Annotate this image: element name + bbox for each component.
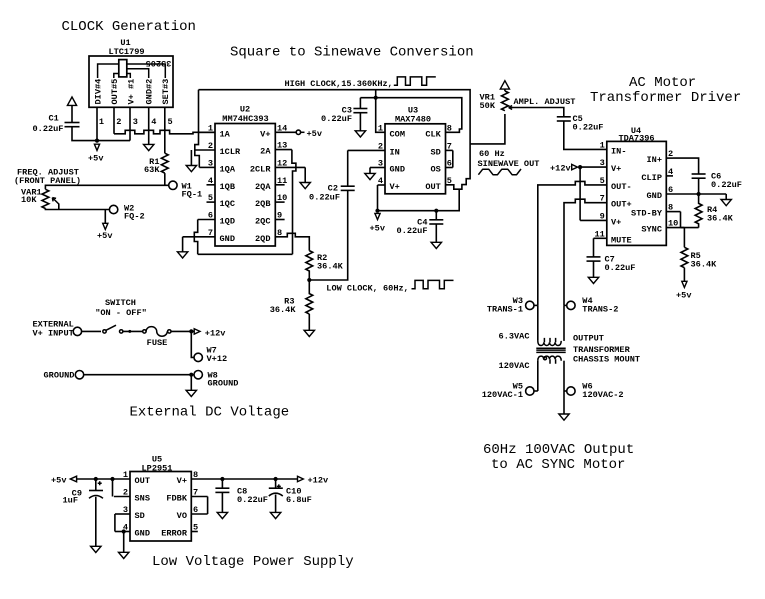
svg-text:11: 11 <box>277 176 287 186</box>
switch SW1 <box>103 330 106 333</box>
wire +5v rail to C4 and OUT riser <box>378 189 460 211</box>
wire VAR1 wiper down <box>58 204 60 210</box>
ground arrow below U1 pin4 <box>144 144 154 150</box>
sine wave glyph <box>478 169 521 175</box>
U3 pin 4 V+ <box>378 184 386 186</box>
U2 pin 10 stub 2QB <box>275 201 284 203</box>
svg-text:13: 13 <box>277 141 287 151</box>
U2 pin 14 stub V+ <box>275 131 296 133</box>
svg-text:36.4K: 36.4K <box>270 305 297 315</box>
supply up-arrow above C1 <box>67 97 76 105</box>
svg-text:5: 5 <box>447 176 452 186</box>
svg-text:60Hz 100VAC Output: 60Hz 100VAC Output <box>483 442 634 458</box>
wire C3 node to CLK vertical <box>360 98 461 133</box>
svg-text:1uF: 1uF <box>63 496 78 506</box>
svg-text:7: 7 <box>447 141 452 151</box>
svg-text:0.22uF: 0.22uF <box>711 180 742 190</box>
node junction dot W8 <box>189 373 193 377</box>
svg-text:CLIP: CLIP <box>641 173 662 183</box>
wire U1 pin2 down to bus <box>113 107 115 134</box>
svg-text:V+: V+ <box>611 217 621 227</box>
svg-text:OS: OS <box>430 165 440 175</box>
wire U1 pin3 down to +5v rail <box>129 107 131 140</box>
svg-text:8: 8 <box>447 123 452 133</box>
U1 internal wire GND to package <box>127 69 149 78</box>
potentiometer VAR1 10K <box>42 189 49 208</box>
+5v supply symbol below U3 <box>375 213 380 219</box>
svg-text:9: 9 <box>600 211 605 221</box>
svg-text:0.22uF: 0.22uF <box>309 193 340 203</box>
svg-text:GND: GND <box>647 191 662 201</box>
wire U5 OUT row <box>77 478 130 480</box>
U2 pin 12 stub 2CLR <box>275 166 305 168</box>
U2 pin 13 stub 2A <box>275 149 292 151</box>
svg-text:63K: 63K <box>144 165 160 175</box>
svg-text:36.4K: 36.4K <box>317 262 344 272</box>
terminal W7 V+12 <box>194 353 202 361</box>
node junction dot GND/C6/R4 <box>697 192 701 196</box>
wire U2 bottom bus <box>198 253 293 255</box>
capacitor C2 0.22uF <box>341 185 355 187</box>
svg-text:0.22uF: 0.22uF <box>397 226 428 236</box>
wire C10 to ground <box>275 495 277 513</box>
svg-text:6: 6 <box>208 211 213 221</box>
+12v supply into U4 <box>578 165 582 169</box>
U5 pin 2 SNS <box>114 496 130 498</box>
svg-text:V+12: V+12 <box>207 354 228 364</box>
wire VR1 wiper to C5 <box>514 108 564 117</box>
svg-text:SET#3: SET#3 <box>161 79 171 105</box>
svg-text:GND: GND <box>135 529 150 539</box>
svg-text:OUT: OUT <box>135 476 150 486</box>
svg-text:Transformer Driver: Transformer Driver <box>590 90 741 106</box>
svg-text:OUT-: OUT- <box>611 182 632 192</box>
wire U2 pin8 right to R2 with hop <box>275 233 309 250</box>
wire U3 V+ down to +5v rail <box>377 185 379 211</box>
U4 pin 10 SYNC <box>666 227 684 229</box>
svg-text:External DC Voltage: External DC Voltage <box>130 405 290 421</box>
svg-text:C1: C1 <box>49 114 59 124</box>
svg-text:36.4K: 36.4K <box>691 260 718 270</box>
+5v supply symbol below U1 pin1 <box>94 144 99 150</box>
svg-text:9: 9 <box>277 211 282 221</box>
U5 pin 3 SD <box>115 513 130 515</box>
ground arrow below C10 <box>270 512 280 518</box>
terminal W3 TRANS-1 <box>526 301 534 309</box>
node junction dot C8 <box>220 477 224 481</box>
U4 pin 3 V+ <box>580 166 607 168</box>
U3 pin 6 OS <box>446 167 453 169</box>
svg-text:VO: VO <box>177 511 187 521</box>
wire IN+ right to C6 <box>673 158 699 174</box>
U1 internal wire V+ to package <box>127 74 131 79</box>
svg-text:+12v: +12v <box>205 328 226 338</box>
svg-text:AC Motor: AC Motor <box>629 75 696 91</box>
transformer T1 core <box>536 347 565 349</box>
terminal W6 120VAC-2 <box>567 387 575 395</box>
wire R1 to W1 <box>164 173 166 185</box>
fuse F1 <box>143 330 146 333</box>
svg-text:10: 10 <box>277 193 287 203</box>
wire stub bus to C3 node <box>375 90 377 98</box>
transformer T1 primary lead left <box>537 305 539 341</box>
svg-text:0.22uF: 0.22uF <box>237 495 268 505</box>
U4 pin 4 CLIP <box>666 175 673 177</box>
svg-text:HIGH CLOCK,15.360KHz,: HIGH CLOCK,15.360KHz, <box>285 79 393 89</box>
wire R5 to +5v <box>683 268 685 282</box>
+12v arrow right <box>298 476 304 481</box>
wire MUTE down to C7 <box>593 238 595 257</box>
resistor R3 36.4K <box>306 280 313 314</box>
wire VR1 bottom to OUT riser <box>470 114 505 144</box>
svg-text:50K: 50K <box>480 101 496 111</box>
wire U3 IN left and down to C2 <box>347 150 349 186</box>
ground arrow below C3 <box>355 131 365 137</box>
svg-text:IN-: IN- <box>611 146 626 156</box>
svg-text:CLK: CLK <box>425 129 441 139</box>
svg-text:+5v: +5v <box>307 129 322 139</box>
svg-text:GND: GND <box>220 234 235 244</box>
wire C4 to ground <box>435 224 437 242</box>
svg-text:7: 7 <box>193 488 198 498</box>
svg-text:DIV#4: DIV#4 <box>94 79 104 105</box>
wire ground drop at U2 pin2 <box>190 150 192 166</box>
svg-text:IN: IN <box>390 147 400 157</box>
svg-text:1: 1 <box>378 123 383 133</box>
transformer secondary lead right <box>563 361 565 414</box>
capacitor C6 0.22uF <box>692 173 706 175</box>
svg-text:CHASSIS MOUNT: CHASSIS MOUNT <box>573 355 640 365</box>
resistor R1 63K <box>161 153 168 173</box>
svg-text:33205: 33205 <box>146 58 172 68</box>
svg-text:V+: V+ <box>611 164 621 174</box>
svg-text:IN+: IN+ <box>647 155 662 165</box>
wire C3 to ground <box>359 113 361 131</box>
svg-text:5: 5 <box>193 523 198 533</box>
svg-text:3: 3 <box>208 158 213 168</box>
ground arrow below C7 <box>588 277 598 283</box>
svg-text:U2: U2 <box>240 105 250 115</box>
U5 pin 6 VO <box>191 513 207 515</box>
U4 pin 2 IN+ <box>666 157 673 159</box>
capacitor C9 1uF electrolytic <box>95 479 97 491</box>
node junction dot U1 pin1 / +5v <box>95 139 99 143</box>
svg-text:1QB: 1QB <box>220 182 235 192</box>
node junction dot C4 <box>434 209 438 213</box>
node junction dot C10 <box>274 477 278 481</box>
svg-text:2A: 2A <box>260 147 271 157</box>
wire C3 drop <box>359 98 361 109</box>
wire fuse to +12v arrow <box>171 330 195 332</box>
wire C6 down to GND node <box>698 178 700 194</box>
wire input to switch <box>82 330 101 332</box>
transformer phase dot <box>544 357 547 360</box>
terminal W4 TRANS-2 <box>567 301 575 309</box>
svg-text:1QC: 1QC <box>220 199 235 209</box>
svg-text:2: 2 <box>116 117 121 127</box>
ground arrow below transformer <box>559 414 569 420</box>
svg-text:3: 3 <box>123 505 128 515</box>
U4 pin 11 MUTE <box>594 237 607 239</box>
wire ground row <box>84 374 194 376</box>
VR1 wiper arrow <box>509 106 514 110</box>
svg-text:TRANS-1: TRANS-1 <box>487 305 523 315</box>
svg-text:GROUND: GROUND <box>44 370 75 380</box>
svg-text:V+ #1: V+ #1 <box>127 79 137 105</box>
U5 pin 7 FDBK <box>191 496 207 498</box>
U5 pin 4 GND <box>115 531 130 533</box>
svg-text:3: 3 <box>378 159 383 169</box>
wire U2 pin2/pin3 clear net <box>195 132 200 167</box>
svg-text:FQ-1: FQ-1 <box>182 189 203 199</box>
svg-text:2QC: 2QC <box>255 217 270 227</box>
svg-text:+12v: +12v <box>308 476 329 486</box>
svg-text:MM74HC393: MM74HC393 <box>222 114 268 124</box>
wire U5 V+ row <box>191 478 297 480</box>
wire C2 down to R2/R3 node <box>309 190 347 280</box>
wire VAR1 bottom to W2 <box>45 208 109 209</box>
wire U3 GND down <box>369 168 371 174</box>
svg-text:"ON - OFF": "ON - OFF" <box>95 308 147 318</box>
svg-text:3: 3 <box>133 117 138 127</box>
svg-text:OUT#5: OUT#5 <box>110 79 120 105</box>
svg-text:0.22uF: 0.22uF <box>33 124 64 134</box>
U2 pin 6 stub 1QD <box>198 219 215 221</box>
svg-text:SD: SD <box>135 511 145 521</box>
wire COM drop to U3 pin1 <box>376 98 385 133</box>
capacitor C8 0.22uF <box>221 479 223 488</box>
transformer T1 primary lead right <box>563 305 565 341</box>
svg-text:SINEWAVE OUT: SINEWAVE OUT <box>478 159 540 169</box>
U4 pin 9 V+ <box>580 219 607 221</box>
square wave glyph low clock <box>412 280 454 288</box>
ground arrow below W8 <box>186 390 196 396</box>
svg-text:5: 5 <box>168 117 173 127</box>
ground arrow below C8 <box>217 512 227 518</box>
svg-text:3: 3 <box>600 158 605 168</box>
U1 internal wire OUT to package <box>114 74 119 79</box>
terminal W2 FQ-2 <box>109 205 117 213</box>
VAR1 wiper arrow <box>52 198 59 204</box>
svg-text:TRANSFORMER: TRANSFORMER <box>573 345 631 355</box>
svg-text:STD-BY: STD-BY <box>631 209 663 219</box>
svg-text:(FRONT PANEL): (FRONT PANEL) <box>14 176 81 186</box>
potentiometer VR1 50K <box>502 91 509 111</box>
svg-text:+5v: +5v <box>88 153 103 163</box>
svg-text:1: 1 <box>208 123 213 133</box>
capacitor C4 0.22uF <box>435 211 437 220</box>
wire U5 GND drop <box>123 532 125 553</box>
svg-text:0.22uF: 0.22uF <box>573 123 604 133</box>
svg-text:7: 7 <box>208 228 213 238</box>
svg-text:2QA: 2QA <box>255 182 271 192</box>
svg-text:+5v: +5v <box>370 224 385 234</box>
wire R3 to ground <box>308 314 310 330</box>
terminal W1 FQ-1 <box>169 181 177 189</box>
svg-text:36.4K: 36.4K <box>707 214 734 224</box>
svg-text:2: 2 <box>378 141 383 151</box>
wire W7 drop <box>191 331 194 357</box>
U4 pin 6 GND <box>666 193 726 195</box>
U2 pin 1 stub 1A <box>199 131 216 133</box>
wire C7 to ground <box>593 261 595 277</box>
svg-text:120VAC: 120VAC <box>499 361 530 371</box>
terminal external V+ input <box>73 327 81 335</box>
wire SYNC node down to R5 <box>683 228 685 248</box>
svg-text:V+: V+ <box>260 129 270 139</box>
resistor R4 36.4K <box>695 194 702 228</box>
node junction dot C3/COM/CLK <box>374 96 378 100</box>
wire W8 ground drop <box>190 375 192 391</box>
svg-text:SYNC: SYNC <box>641 225 662 235</box>
supply up-arrow above VR1 <box>500 81 509 89</box>
ground arrow right of U4 <box>721 200 731 206</box>
transformer T1 secondary winding <box>538 356 561 361</box>
svg-text:SD: SD <box>430 147 440 157</box>
svg-text:6.3VAC: 6.3VAC <box>499 332 530 342</box>
svg-text:6.8uF: 6.8uF <box>286 495 312 505</box>
svg-text:120VAC-2: 120VAC-2 <box>582 390 623 400</box>
svg-text:1QD: 1QD <box>220 217 235 227</box>
U4 pin 8 STD-BY <box>666 211 680 213</box>
svg-text:0.22uF: 0.22uF <box>321 114 352 124</box>
svg-text:6: 6 <box>447 159 452 169</box>
svg-text:+5v: +5v <box>676 291 691 301</box>
svg-text:ERROR: ERROR <box>161 529 188 539</box>
ground arrow below U2 pin2 <box>186 166 196 172</box>
svg-text:CLOCK Generation: CLOCK Generation <box>62 19 196 35</box>
svg-text:1: 1 <box>600 140 605 150</box>
svg-text:4: 4 <box>668 167 673 177</box>
svg-text:4: 4 <box>208 176 213 186</box>
ground arrow below U2 pin7 <box>177 252 187 258</box>
terminal W8 GROUND <box>194 371 202 379</box>
svg-text:1QA: 1QA <box>220 164 236 174</box>
square wave glyph high clock <box>394 77 436 85</box>
ground arrow below R3 <box>304 330 314 336</box>
wire bus U1 pin2 to U2 pin1 with hops <box>114 130 215 134</box>
svg-text:SWITCH: SWITCH <box>105 298 136 308</box>
U3 pin 3 GND <box>370 167 385 169</box>
svg-text:1A: 1A <box>220 129 231 139</box>
U2 pin 3 stub 1QA <box>199 166 215 168</box>
U5 pin 5 ERROR <box>191 531 198 533</box>
svg-text:6: 6 <box>668 185 673 195</box>
svg-text:V+: V+ <box>390 182 400 192</box>
svg-text:+5v: +5v <box>51 476 66 486</box>
node junction dot +5v rail left <box>375 209 379 213</box>
U3 pin 7 SD <box>446 149 453 151</box>
svg-text:2CLR: 2CLR <box>250 164 271 174</box>
svg-text:120VAC-1: 120VAC-1 <box>482 390 523 400</box>
terminal W5 120VAC-1 <box>526 387 534 395</box>
capacitor C7 0.22uF <box>587 256 601 258</box>
resistor R5 36.4K <box>681 247 688 267</box>
svg-text:AMPL. ADJUST: AMPL. ADJUST <box>514 97 576 107</box>
svg-text:MUTE: MUTE <box>611 235 632 245</box>
svg-text:2QB: 2QB <box>255 199 270 209</box>
svg-text:12: 12 <box>277 158 287 168</box>
U2 pin 7 stub GND <box>183 236 215 238</box>
wire +12v vertical to pin 9 <box>579 167 581 220</box>
svg-text:+12v: +12v <box>550 163 571 173</box>
U3 pin 2 IN <box>348 149 385 151</box>
+12v supply arrow <box>194 329 200 334</box>
wire switch to fuse <box>123 330 143 332</box>
svg-text:FQ-2: FQ-2 <box>124 212 145 222</box>
wire R4 bottom to SYNC node <box>681 227 699 229</box>
wire U1 pin4 down <box>148 107 150 144</box>
svg-text:10K: 10K <box>21 195 37 205</box>
wire U4 OUT+ left with hop to transformer <box>564 199 607 305</box>
wire STD-BY down <box>680 212 682 228</box>
wire SNS link <box>112 479 114 497</box>
U1 package outline <box>119 60 127 77</box>
svg-text:2: 2 <box>123 488 128 498</box>
transformer T1 primary winding <box>538 341 561 346</box>
ground arrow below U2 pin12 <box>300 183 310 189</box>
capacitor C1 <box>65 126 80 128</box>
svg-text:OUTPUT: OUTPUT <box>573 334 604 344</box>
no-connect circle and +5v at U2 pin14 <box>296 130 300 134</box>
svg-text:GND#2: GND#2 <box>145 79 155 105</box>
svg-text:OUT+: OUT+ <box>611 200 632 210</box>
U2 pin 2 stub 1CLR <box>195 149 215 151</box>
svg-text:0.22uF: 0.22uF <box>605 263 636 273</box>
+5v arrow left <box>70 476 76 482</box>
terminal ground input <box>75 371 83 379</box>
svg-text:COM: COM <box>390 129 405 139</box>
capacitor C3 0.22uF <box>353 108 367 110</box>
wire U1 pin1 down <box>96 107 98 140</box>
svg-text:1CLR: 1CLR <box>220 147 241 157</box>
wire U2 pin12 down to ground <box>304 167 306 182</box>
svg-text:to AC SYNC Motor: to AC SYNC Motor <box>491 457 625 473</box>
ground arrow below U3 pin3 <box>365 173 375 179</box>
ground arrow below U5 <box>119 552 129 558</box>
svg-text:V+ INPUT: V+ INPUT <box>33 329 74 339</box>
svg-text:Square to Sinewave Conversion: Square to Sinewave Conversion <box>230 45 474 61</box>
wire U2 pin13 down with jog <box>292 150 296 255</box>
node junction dot C9 <box>94 477 98 481</box>
wire VR1 top stem <box>504 89 506 91</box>
svg-text:SNS: SNS <box>135 494 150 504</box>
wire U1 pin5 down to R1 <box>164 107 166 153</box>
svg-text:1: 1 <box>99 117 104 127</box>
+5v supply symbol below W2 wire <box>103 223 108 229</box>
svg-text:2: 2 <box>208 141 213 151</box>
U2 pin 4 stub 1QB <box>207 184 216 186</box>
svg-text:4: 4 <box>378 176 383 186</box>
svg-text:2: 2 <box>668 149 673 159</box>
U1 internal wire DIV to package <box>98 64 119 78</box>
wire FDBK-VO link <box>207 497 209 515</box>
wire C1 up to arrow <box>71 105 73 122</box>
svg-text:FUSE: FUSE <box>147 338 168 348</box>
wire W1 row to VAR1 <box>45 185 168 189</box>
wire U4 OUT- left with hop to transformer <box>538 181 607 305</box>
svg-text:5: 5 <box>208 193 213 203</box>
wire C9 to ground <box>95 497 97 547</box>
wire HIGH CLOCK vertical at U2 pin1 <box>198 90 200 133</box>
svg-text:+5v: +5v <box>97 231 112 241</box>
node junction dot R2/R3 <box>307 278 311 282</box>
transformer secondary lead left <box>537 361 539 391</box>
U1 internal wire SET to package <box>127 64 166 78</box>
node junction dot GND drop <box>122 529 126 533</box>
wire +5v rail <box>72 127 130 141</box>
wire U3 pin7-pin6 link <box>452 150 454 167</box>
